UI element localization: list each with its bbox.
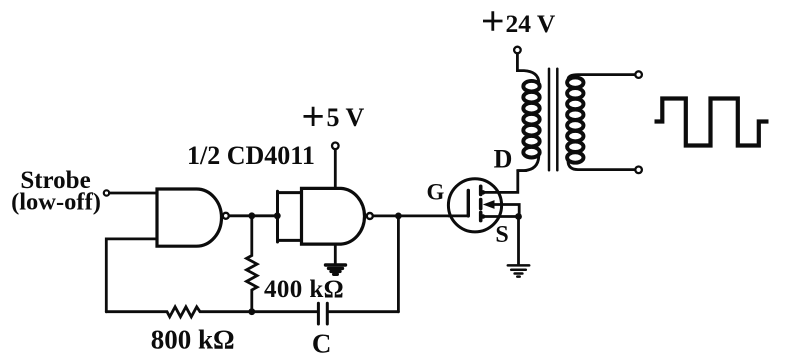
NAND gate U1A (1/2 CD4011): [157, 189, 221, 246]
wire bottom right to capacitor: [329, 310, 398, 313]
node junction dot at U1B output: [395, 213, 402, 220]
resistor R1 400 kOhm: [247, 216, 258, 312]
svg-text:5 V: 5 V: [327, 103, 365, 132]
svg-text:400 kΩ: 400 kΩ: [264, 276, 344, 303]
wire secondary top lead: [568, 75, 634, 79]
node junction dot source: [515, 213, 522, 220]
node U1A output bubble: [223, 213, 229, 219]
node U1B output bubble: [367, 213, 373, 219]
wire +24V to transformer primary top: [517, 54, 538, 82]
node junction dot R400k / bottom wire: [248, 308, 255, 315]
node secondary top terminal: [635, 71, 642, 78]
ground below Q1 source: [508, 265, 529, 276]
wire body stub to source: [494, 205, 520, 217]
svg-text:(low-off): (low-off): [11, 189, 101, 216]
transformer T1 secondary winding: [567, 77, 583, 162]
svg-text:S: S: [495, 222, 508, 248]
wire gate lead into Q1: [449, 214, 469, 217]
node +24V supply terminal: [514, 47, 521, 54]
svg-text:800 kΩ: 800 kΩ: [151, 325, 235, 355]
node +5V supply terminal: [332, 143, 339, 150]
wire drain stub up to transformer: [481, 171, 526, 193]
node secondary bottom terminal: [635, 167, 642, 174]
wire source to ground: [517, 217, 520, 265]
capacitor C: [318, 303, 327, 324]
plus sign of +24 V: [483, 11, 503, 30]
svg-text:D: D: [494, 145, 513, 174]
node junction dot at U1B input bar: [274, 212, 281, 219]
wire feedback from U1B output down: [397, 216, 400, 312]
svg-text:1/2 CD4011: 1/2 CD4011: [187, 141, 315, 170]
wire U1B tied-input bracket: [278, 191, 302, 242]
NAND gate U1B (1/2 CD4011): [302, 188, 365, 244]
wire U1A output to U1B input bracket: [229, 214, 277, 217]
wire strobe input to gate U1A: [110, 192, 158, 195]
channel segments of Q1: [479, 186, 483, 220]
transistor Q1 power MOSFET circle: [448, 179, 501, 232]
wire +5V to U1B power pin: [334, 149, 337, 188]
pin blob drain stub: [481, 190, 486, 195]
wire U1B output to MOSFET gate: [373, 214, 449, 217]
wire source stub: [481, 215, 519, 218]
wire secondary bottom lead: [568, 162, 634, 170]
svg-text:24 V: 24 V: [506, 9, 556, 38]
wire U1B ground pin: [334, 244, 337, 263]
node junction dot to R 400k: [248, 212, 255, 219]
svg-text:C: C: [312, 328, 332, 358]
square wave output symbol: [655, 99, 769, 146]
wire transformer primary bottom to drain: [518, 157, 539, 171]
resistor R2 800 kOhm: [106, 307, 252, 317]
body arrow of Q1: [483, 200, 495, 209]
svg-text:G: G: [426, 180, 444, 205]
node Strobe input terminal: [104, 190, 109, 195]
ground below U1B: [326, 265, 346, 274]
wire capacitor to node, through 800k: [252, 310, 317, 313]
transformer T1 core: [549, 69, 557, 170]
gate bar of Q1: [467, 191, 470, 216]
plus sign of +5 V: [304, 107, 323, 126]
transformer T1 primary winding: [523, 81, 539, 158]
pin blob source stub: [481, 214, 486, 219]
wire feedback left vertical to U1A input: [106, 239, 157, 312]
